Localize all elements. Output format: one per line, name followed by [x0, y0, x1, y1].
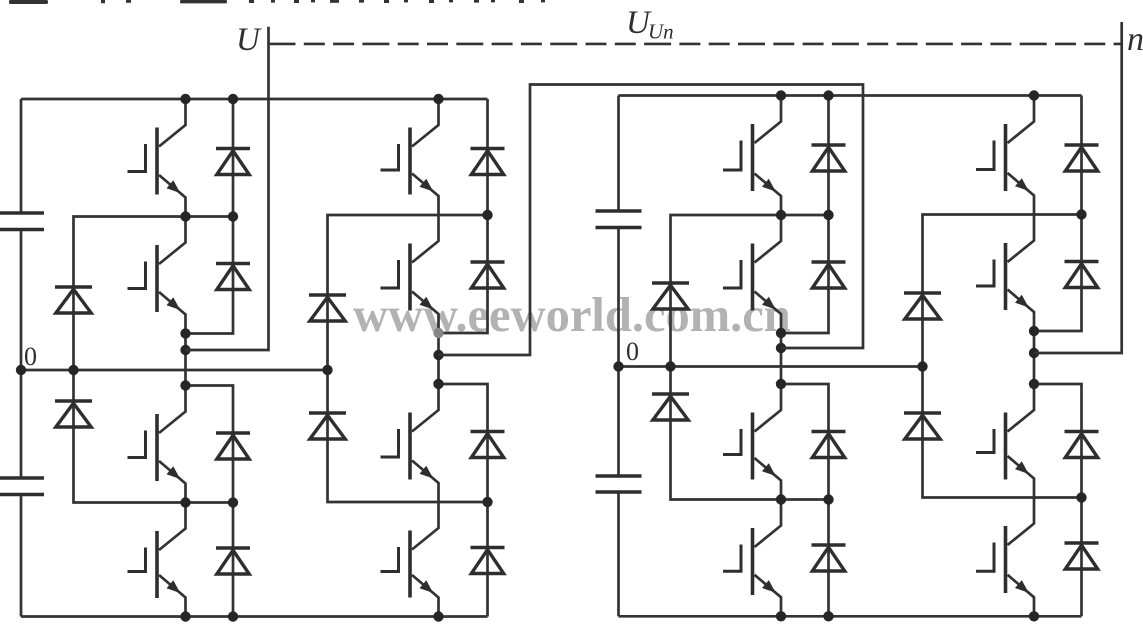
wire: module 2 DC bus left rail — [617, 96, 620, 617]
node: leg D output C junction — [1029, 379, 1039, 389]
svg-text:Un: Un — [648, 20, 674, 44]
wire: leg A clamp upper connector — [74, 217, 234, 371]
node: leg D lower junction (diode) — [1076, 492, 1086, 502]
wire: leg D clamp upper connector — [923, 215, 1082, 367]
wire: leg D lower diode chain — [1034, 384, 1082, 616]
capacitor C4 — [596, 476, 642, 492]
diode D19 — [1065, 145, 1099, 171]
wire: module 1 positive rail — [21, 98, 488, 101]
wire: leg B lower diode chain — [439, 384, 488, 617]
diode D8 — [471, 262, 505, 288]
wire: dashed measurement line U to n — [269, 43, 1122, 46]
node: leg A output A junction — [180, 328, 190, 338]
clamp diode D17 — [652, 283, 689, 309]
node: leg B clamp-neutral junction — [322, 365, 332, 375]
transistor Q9 (IGBT) — [723, 96, 781, 216]
node: leg A upper junction (diode) — [228, 211, 238, 221]
svg-text:0: 0 — [626, 337, 639, 366]
node: leg D output A junction — [1029, 326, 1039, 336]
wire: module 2 negative rail — [619, 615, 1082, 618]
clamp diode D6 — [55, 401, 92, 427]
node: leg A output B junction — [180, 345, 190, 355]
diode D4 — [216, 548, 250, 574]
wire: leg A output node vertical — [184, 334, 187, 386]
node: leg A lower junction (IGBT) — [180, 497, 190, 507]
node: leg C lower junction (diode) — [823, 494, 833, 504]
node: leg A upper junction (IGBT) — [180, 211, 190, 221]
capacitor C1 — [0, 213, 44, 230]
node: leg A diode bottom rail tap — [228, 611, 238, 621]
svg-text:n: n — [1127, 21, 1143, 58]
wire: leg C lower diode chain — [781, 384, 829, 616]
svg-text:0: 0 — [24, 342, 37, 371]
diode D21 — [1065, 432, 1099, 458]
node: leg C upper junction (IGBT) — [776, 210, 786, 220]
wire: module 1 neutral bus — [21, 369, 328, 372]
transistor Q13 (IGBT) — [976, 96, 1034, 215]
wire: leg C upper diode chain — [781, 96, 829, 334]
node: leg D bottom rail tap — [1029, 611, 1039, 621]
node: leg C bottom rail tap — [776, 611, 786, 621]
wire: leg C output node vertical — [780, 333, 783, 384]
wire: node n riser from leg D output — [1034, 22, 1122, 353]
wire: leg D output node vertical — [1033, 331, 1036, 384]
wire: leg B output node vertical — [437, 333, 440, 384]
clamp diode D24 — [904, 413, 941, 439]
diode D16 — [812, 545, 846, 571]
node: leg A top rail tap — [180, 94, 190, 104]
node: leg D output B junction — [1029, 348, 1039, 358]
diode D9 — [471, 432, 505, 458]
node: leg C lower junction (IGBT) — [776, 494, 786, 504]
wire: module 1 DC bus left rail — [20, 99, 23, 617]
transistor Q12 (IGBT) — [723, 500, 781, 617]
wire: inter-module link leg B output to leg C output — [439, 85, 864, 356]
transistor Q5 (IGBT) — [381, 99, 439, 215]
wire: node U riser from leg A output — [186, 27, 269, 350]
wire: leg A lower diode chain — [186, 386, 234, 617]
node: leg A diode top rail tap — [228, 94, 238, 104]
node: leg C top rail tap — [776, 90, 786, 100]
node: leg A clamp-neutral junction — [68, 365, 78, 375]
transistor Q4 (IGBT) — [128, 503, 186, 617]
wire: leg B clamp upper connector — [328, 215, 488, 370]
node: leg C upper junction (diode) — [823, 210, 833, 220]
node 0 (module 2 neutral on rail) — [613, 361, 623, 371]
diode D7 — [471, 149, 505, 175]
transistor Q10 (IGBT) — [723, 215, 781, 333]
diode D2 — [216, 264, 250, 290]
node: leg D upper junction (diode) — [1076, 209, 1086, 219]
clamp diode D5 — [55, 287, 92, 313]
diode D15 — [812, 432, 846, 458]
diode D1 — [216, 149, 250, 175]
diode D3 — [216, 433, 250, 459]
wire: leg A clamp lower connector — [74, 370, 234, 503]
node: leg C diode top rail tap — [823, 90, 833, 100]
transistor Q15 (IGBT) — [976, 384, 1034, 498]
wire: module 2 neutral bus — [619, 365, 923, 368]
wire: leg C clamp upper connector — [671, 215, 829, 367]
node: leg A output C junction — [180, 380, 190, 390]
transistor Q14 (IGBT) — [976, 215, 1034, 332]
node: leg C diode bottom rail tap — [823, 611, 833, 621]
capacitor C3 — [596, 211, 642, 228]
wire: leg A upper diode chain — [186, 99, 234, 334]
transistor Q1 (IGBT) — [128, 99, 186, 217]
diode D20 — [1065, 262, 1099, 288]
node: leg D clamp-neutral junction — [917, 361, 927, 371]
clamp diode D18 — [652, 394, 689, 420]
transistor Q16 (IGBT) — [976, 498, 1034, 617]
clamp diode D12 — [309, 413, 346, 439]
cropped page title text (bottom tips of characters) — [9, 0, 545, 4]
node: leg B bottom rail tap — [433, 611, 443, 621]
diode D22 — [1065, 543, 1099, 569]
diode D13 — [812, 145, 846, 171]
node: leg D top rail tap — [1029, 90, 1039, 100]
node: leg B output C junction — [433, 379, 443, 389]
node: leg C output B junction — [776, 343, 786, 353]
node: leg B upper junction (diode) — [482, 210, 492, 220]
wire: module 1 negative rail — [21, 615, 488, 618]
node: leg C output A junction — [776, 328, 786, 338]
transistor Q11 (IGBT) — [723, 384, 781, 500]
wire: leg C clamp lower connector — [671, 367, 829, 500]
transistor Q6 (IGBT) — [381, 215, 439, 333]
wire: leg B upper diode chain — [439, 99, 488, 333]
svg-text:U: U — [236, 22, 262, 58]
transistor Q2 (IGBT) — [128, 217, 186, 334]
node 0 (module 1 neutral on rail) — [16, 365, 26, 375]
diode D10 — [471, 548, 505, 574]
clamp diode D23 — [904, 293, 941, 319]
clamp diode D11 — [309, 295, 346, 321]
node: leg A lower junction (diode) — [228, 497, 238, 507]
node: leg A bottom rail tap — [180, 611, 190, 621]
wire: leg D clamp lower connector — [923, 367, 1082, 498]
node: leg B output A junction — [433, 328, 443, 338]
wire: module 2 positive rail — [619, 94, 1082, 97]
diode D14 — [812, 262, 846, 288]
wire: leg D upper diode chain — [1034, 96, 1082, 332]
node: leg B output B junction — [433, 350, 443, 360]
transistor Q3 (IGBT) — [128, 386, 186, 503]
node: leg B lower junction (diode) — [482, 497, 492, 507]
transistor Q7 (IGBT) — [381, 384, 439, 502]
node: leg C output C junction — [776, 379, 786, 389]
wire: leg B clamp lower connector — [328, 370, 488, 502]
node: leg C clamp-neutral junction — [665, 361, 675, 371]
node: leg B top rail tap — [433, 94, 443, 104]
capacitor C2 — [0, 478, 44, 495]
transistor Q8 (IGBT) — [381, 502, 439, 617]
